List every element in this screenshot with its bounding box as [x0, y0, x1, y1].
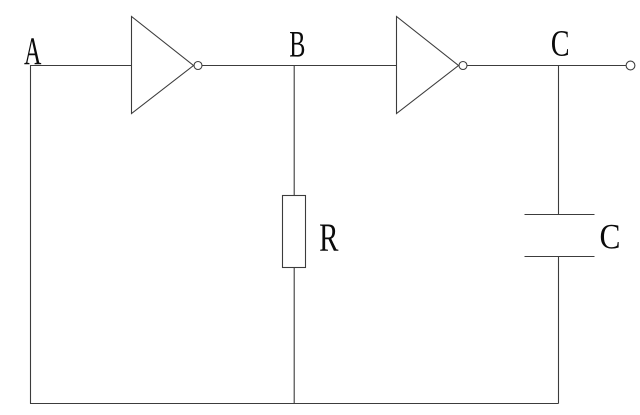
capacitor C value label — [601, 225, 619, 249]
capacitor C top plate — [525, 214, 595, 216]
wire: left vertical feedback from A down — [30, 65, 32, 404]
wire: U2 output to node C to output terminal — [467, 65, 626, 67]
node A label — [24, 38, 41, 64]
wire: bottom return — [30, 403, 559, 405]
inverter U2 triangle — [397, 17, 459, 114]
inverter U2 output bubble — [459, 62, 467, 70]
wire: U1 output to node B to inverter U2 input — [202, 65, 397, 67]
wire: node A to inverter U1 input — [30, 65, 132, 67]
node B label — [290, 32, 304, 57]
capacitor C bottom plate — [525, 256, 595, 258]
inverter U1 triangle — [132, 17, 194, 114]
wire: capacitor C bottom to bottom return — [558, 257, 560, 404]
wire: node C down to capacitor C — [558, 66, 560, 215]
output terminal circle — [626, 61, 635, 70]
wire: node B down to resistor R — [293, 66, 295, 196]
resistor R value label — [320, 225, 338, 251]
wire: resistor R bottom to bottom return — [293, 268, 295, 404]
inverter U1 output bubble — [194, 62, 202, 70]
resistor R body — [283, 196, 306, 268]
node C label — [552, 31, 568, 56]
